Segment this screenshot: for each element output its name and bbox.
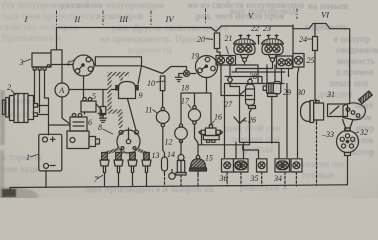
svg-text:32: 32 — [359, 128, 368, 137]
relay 29 — [263, 82, 281, 97]
left edge scan shadow — [0, 90, 5, 145]
wire dashed ground 13 — [164, 173, 166, 186]
horn 15 — [190, 124, 207, 174]
svg-text:проводя: проводя — [240, 144, 273, 154]
ground bus — [10, 185, 348, 190]
wire battery minus to ground bus — [45, 171, 47, 188]
battery 1 — [39, 134, 62, 171]
svg-text:10: 10 — [147, 79, 155, 88]
pull loop — [171, 170, 173, 173]
svg-text:22: 22 — [251, 24, 259, 33]
wire dashed strip grounds — [227, 172, 296, 186]
svg-text:в тормозн: в тормозн — [2, 152, 42, 162]
svg-text:9: 9 — [139, 91, 143, 100]
socket 25 — [293, 54, 304, 68]
svg-text:8: 8 — [98, 123, 102, 132]
svg-text:вых полупровод: вых полупровод — [230, 6, 296, 16]
wire diamond to switch 26 — [230, 83, 240, 123]
starter relay 6 — [70, 114, 87, 132]
wire right drops — [287, 67, 299, 158]
capacitor at distributor — [102, 90, 104, 107]
spark plugs 7 — [100, 153, 151, 187]
svg-text:водимости: водимости — [128, 45, 172, 55]
wire dashed ground 14 — [180, 175, 182, 186]
svg-text:VI: VI — [321, 10, 330, 20]
wire switch4 to relay5 — [83, 76, 85, 98]
turn switch 31 — [328, 91, 373, 131]
svg-text:оводников: оводников — [336, 45, 378, 55]
lamp 17 — [188, 106, 200, 125]
hazard capsule 28 — [246, 79, 256, 108]
svg-text:но проводимость. Прим: но проводимость. Прим — [100, 34, 198, 44]
connector strip 36 — [222, 159, 249, 172]
svg-text:12: 12 — [165, 138, 173, 147]
wire fuse20 to block21 — [217, 49, 220, 56]
svg-text:18: 18 — [181, 84, 189, 93]
section separators — [57, 9, 298, 27]
tail lamp 30 — [301, 101, 324, 123]
svg-text:17: 17 — [181, 97, 190, 106]
svg-text:х примен: х примен — [336, 67, 374, 77]
wire bus V-section — [221, 26, 293, 54]
svg-text:13: 13 — [152, 151, 160, 160]
svg-text:16: 16 — [214, 113, 222, 122]
wire block drops left — [221, 65, 244, 96]
wire ammeter to coil — [69, 89, 116, 91]
svg-text:35: 35 — [250, 174, 259, 183]
right terminal block — [277, 56, 293, 69]
horn button 18 — [175, 71, 195, 82]
svg-text:A: A — [58, 86, 64, 95]
spark plug leads — [105, 148, 147, 154]
starter relay 5 — [81, 98, 105, 118]
svg-text:–33: –33 — [321, 130, 334, 139]
lamp 12 — [175, 124, 188, 143]
ammeter A — [55, 83, 69, 97]
horn relay 16 — [199, 94, 222, 145]
svg-text:26: 26 — [248, 116, 256, 125]
wire coil to distributor terminal — [128, 99, 137, 131]
ignition coil 9 — [116, 82, 138, 99]
wire box3 to switch4 — [51, 64, 73, 66]
junction diamond — [227, 76, 232, 83]
connector strip 34 — [275, 159, 302, 172]
svg-text:2: 2 — [7, 83, 11, 92]
lamp 11 — [156, 107, 169, 127]
svg-text:21: 21 — [225, 34, 233, 43]
svg-text:19: 19 — [191, 52, 199, 61]
generator 2 — [3, 94, 38, 123]
terminal block 21 — [216, 56, 236, 66]
wire fuse10 to lamp 11 — [162, 91, 164, 108]
wire socket32 to ground bus — [347, 156, 349, 185]
fuse 20 — [214, 33, 219, 49]
wire box3 to generator and battery riser — [35, 70, 71, 135]
switch 27 — [239, 89, 252, 96]
svg-text:1: 1 — [26, 153, 30, 162]
svg-text:доводим: доводим — [318, 89, 353, 99]
svg-text:е полупр: е полупр — [334, 34, 370, 44]
svg-text:23: 23 — [263, 24, 271, 33]
regulator box 3 — [32, 53, 51, 70]
fuse 10 — [160, 76, 165, 91]
wire bundle y83 — [225, 69, 285, 158]
wire harness box to coil terminal — [138, 66, 142, 84]
headlight 23 — [262, 35, 284, 62]
wire capsule to strip — [198, 109, 259, 159]
svg-text:5: 5 — [92, 92, 96, 101]
wire harness box to fuse 10 — [142, 66, 187, 74]
svg-text:решеткам и: решеткам и — [240, 182, 287, 192]
svg-text:25: 25 — [307, 56, 315, 65]
svg-text:36: 36 — [219, 174, 228, 183]
harness under headlights — [230, 62, 285, 84]
switch 26 — [234, 117, 246, 124]
wire fuse24 to lamp30 — [315, 51, 317, 102]
svg-text:20: 20 — [197, 35, 205, 44]
node mid pin between headlights — [257, 36, 261, 45]
svg-text:3: 3 — [19, 58, 24, 67]
svg-text:14: 14 — [167, 150, 175, 159]
wire bus drop to ammeter — [51, 50, 62, 83]
shielded harness box — [95, 57, 141, 66]
ignition switch 4 — [73, 55, 94, 76]
svg-text:III: III — [119, 14, 130, 24]
starter motor — [67, 131, 100, 149]
thermal fuse 14 — [176, 142, 186, 175]
trailer socket 32 — [337, 128, 359, 156]
wire switch19 down to lamps 12 17 — [181, 78, 211, 125]
svg-text:24: 24 — [299, 35, 307, 44]
distributor 8 — [117, 128, 140, 153]
svg-text:ста полупроводников на: ста полупроводников на — [2, 0, 101, 10]
svg-text:4: 4 — [66, 59, 70, 68]
svg-text:6: 6 — [88, 118, 92, 127]
headlight 22 — [234, 35, 256, 62]
wire relay5 to relay6 — [84, 112, 86, 114]
svg-text:мерность: мерность — [337, 56, 375, 66]
shielded conduit to distributor — [110, 74, 130, 128]
wire 26 to strip D — [236, 124, 279, 159]
svg-text:15: 15 — [205, 154, 213, 163]
fuse 13 — [162, 127, 168, 173]
ground pad bottom-left — [2, 189, 16, 197]
svg-text:нии задн: нии задн — [2, 164, 38, 174]
wire dashed lamp30 ground — [316, 123, 318, 186]
wire dashed ground 15 — [197, 175, 199, 187]
fuse 24 — [313, 37, 318, 51]
svg-text:31: 31 — [326, 90, 335, 99]
connector strip 35 — [257, 159, 268, 172]
svg-text:11: 11 — [145, 106, 152, 115]
wire bus VI-section — [293, 24, 350, 104]
svg-text:34: 34 — [273, 174, 282, 183]
svg-text:28: 28 — [249, 72, 257, 81]
svg-text:готовые: готовые — [302, 170, 335, 180]
svg-text:Приложении и: Приложении и — [2, 33, 62, 43]
wire 29 feeds — [267, 65, 275, 143]
svg-text:II: II — [74, 14, 82, 24]
svg-text:наличи пос: наличи пос — [300, 159, 346, 169]
wire top bus — [57, 27, 222, 51]
svg-text:ться свои продолж усл: ться свои продолж усл — [2, 11, 95, 21]
wire ammeter down to starter relay — [62, 97, 70, 124]
svg-text:27: 27 — [224, 100, 233, 109]
svg-text:29: 29 — [283, 88, 291, 97]
svg-text:30: 30 — [296, 88, 305, 97]
light switch 19 — [196, 56, 218, 78]
